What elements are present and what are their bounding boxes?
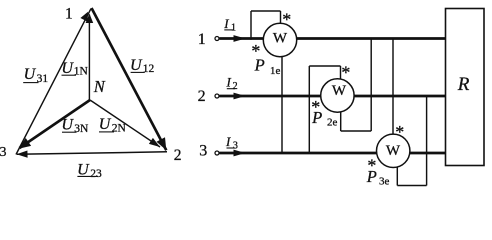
svg-text:2: 2 bbox=[198, 88, 206, 105]
current arrow I2 bbox=[226, 74, 246, 99]
svg-text:I: I bbox=[226, 74, 232, 89]
current arrow I3 bbox=[225, 134, 246, 156]
svg-text:P: P bbox=[366, 167, 377, 186]
label P3e bbox=[366, 167, 390, 188]
node 2 bbox=[174, 147, 182, 164]
svg-text:2: 2 bbox=[233, 81, 238, 92]
phasor U2N bbox=[90, 100, 160, 147]
wire W3 voltage coil to line 2 bbox=[397, 96, 426, 186]
wire W3 voltage coil to line 1 bbox=[392, 39, 394, 134]
asterisk W2 voltage bbox=[341, 63, 350, 83]
asterisk W2 current bbox=[311, 97, 320, 117]
load R bbox=[446, 9, 485, 166]
svg-text:W: W bbox=[332, 83, 347, 99]
current arrow I1 bbox=[223, 16, 245, 42]
svg-text:*: * bbox=[395, 122, 404, 142]
svg-text:3: 3 bbox=[233, 141, 238, 152]
asterisk W1 voltage bbox=[282, 10, 291, 30]
wire phase line 3 bbox=[220, 152, 446, 155]
svg-text:I: I bbox=[225, 134, 231, 149]
svg-text:U: U bbox=[130, 57, 143, 74]
wattmeter W1 bbox=[263, 23, 296, 56]
svg-text:U: U bbox=[61, 116, 74, 133]
svg-text:1: 1 bbox=[65, 5, 73, 22]
svg-text:1N: 1N bbox=[74, 65, 89, 77]
svg-text:N: N bbox=[93, 77, 106, 96]
asterisk W1 current bbox=[251, 41, 260, 61]
asterisk W3 current bbox=[367, 155, 376, 175]
terminal 1 bbox=[198, 31, 219, 48]
wire W2 voltage coil to line 1 bbox=[341, 39, 372, 132]
terminal 2 bbox=[198, 88, 219, 105]
svg-text:U: U bbox=[24, 66, 37, 83]
svg-text:31: 31 bbox=[37, 73, 49, 85]
wattmeter W1 voltage tap bracket bbox=[251, 11, 281, 40]
svg-text:U: U bbox=[61, 60, 74, 77]
label P2e bbox=[311, 108, 337, 129]
phasor U12 bbox=[92, 8, 167, 150]
svg-text:P: P bbox=[254, 55, 265, 74]
svg-text:3N: 3N bbox=[74, 123, 89, 135]
svg-text:P: P bbox=[311, 108, 322, 127]
svg-text:W: W bbox=[273, 31, 288, 47]
node 3 bbox=[0, 145, 7, 160]
phasor U3N bbox=[19, 100, 91, 149]
phasor U31 bbox=[16, 9, 91, 155]
phasor U1N bbox=[61, 14, 93, 101]
wire phase line 1 bbox=[220, 37, 446, 40]
svg-text:I: I bbox=[223, 16, 229, 31]
wattmeter W3 bbox=[377, 134, 410, 167]
svg-text:*: * bbox=[282, 10, 291, 30]
wattmeter W2 voltage tap to line 3 bbox=[309, 66, 340, 153]
svg-text:3e: 3e bbox=[379, 176, 390, 188]
terminal 3 bbox=[199, 142, 219, 159]
svg-text:3: 3 bbox=[0, 145, 7, 160]
node N bbox=[93, 77, 106, 96]
svg-text:23: 23 bbox=[90, 168, 102, 180]
svg-text:R: R bbox=[457, 74, 470, 95]
svg-text:2N: 2N bbox=[112, 123, 127, 135]
phasor U23 bbox=[17, 151, 168, 181]
svg-text:2e: 2e bbox=[327, 116, 338, 128]
wire W1 voltage coil to line 3 bbox=[281, 56, 283, 153]
svg-text:*: * bbox=[341, 63, 350, 83]
svg-text:1: 1 bbox=[198, 31, 206, 48]
svg-text:1: 1 bbox=[231, 22, 236, 33]
svg-text:U: U bbox=[99, 116, 112, 133]
svg-text:12: 12 bbox=[143, 63, 155, 75]
wire phase line 2 bbox=[220, 95, 446, 98]
svg-text:W: W bbox=[386, 143, 401, 159]
svg-text:1e: 1e bbox=[270, 65, 281, 77]
node 1 bbox=[65, 5, 73, 22]
wattmeter W2 bbox=[321, 79, 354, 112]
svg-text:3: 3 bbox=[199, 142, 207, 159]
label P1e bbox=[254, 55, 281, 77]
asterisk W3 voltage bbox=[395, 122, 404, 142]
svg-text:2: 2 bbox=[174, 147, 182, 164]
